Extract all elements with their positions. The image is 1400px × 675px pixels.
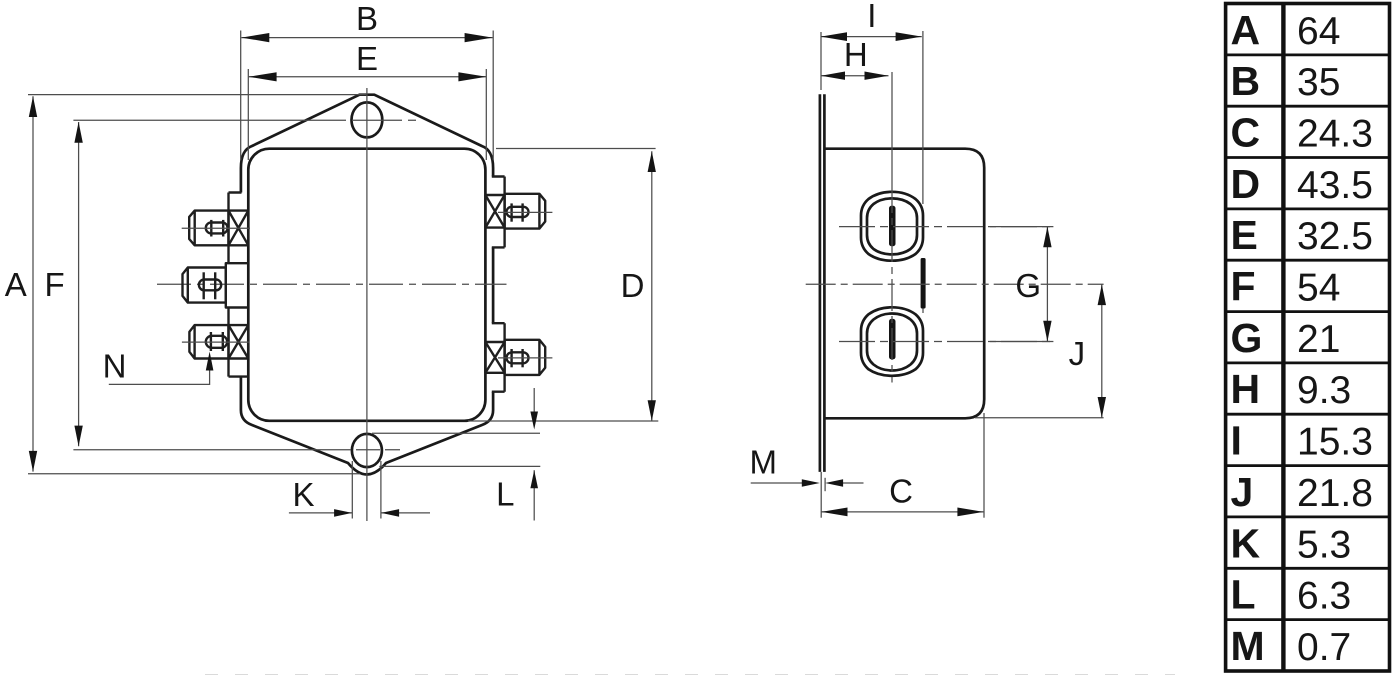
- dimension J: [975, 284, 1106, 417]
- svg-text:G: G: [1231, 315, 1263, 361]
- terminal tab right bottom: [498, 340, 552, 375]
- left insulator box X bottom: [229, 325, 249, 358]
- front view outer outline with mounting ears: [241, 95, 493, 475]
- svg-text:I: I: [1231, 418, 1242, 464]
- dimension L: [372, 388, 540, 521]
- svg-text:B: B: [1231, 58, 1261, 104]
- front vertical centerline: [366, 88, 368, 521]
- top mounting hole: [352, 102, 383, 137]
- svg-text:C: C: [889, 473, 913, 510]
- svg-text:15.3: 15.3: [1297, 421, 1373, 464]
- dimension G: [990, 227, 1053, 342]
- svg-text:32.5: 32.5: [1297, 215, 1373, 258]
- svg-text:24.3: 24.3: [1297, 113, 1373, 156]
- right insulator box X top: [485, 195, 504, 228]
- side top receptacle centerline: [839, 226, 1053, 228]
- svg-text:F: F: [1231, 264, 1256, 310]
- svg-text:6.3: 6.3: [1297, 575, 1351, 618]
- dimension K: [289, 461, 430, 519]
- svg-text:0.7: 0.7: [1297, 626, 1351, 669]
- table values column: [1297, 10, 1373, 669]
- table letters column: [1231, 7, 1265, 669]
- terminal tab left middle with shoulder: [183, 263, 249, 307]
- leader N: [103, 348, 214, 385]
- dimension A: [5, 95, 541, 474]
- svg-text:21: 21: [1297, 318, 1340, 361]
- receptacle top: [861, 192, 923, 261]
- side middle centerline: [806, 283, 1104, 285]
- front horizontal centerline: [157, 283, 507, 285]
- svg-text:K: K: [1231, 520, 1261, 566]
- terminal tab left top: [182, 211, 250, 246]
- svg-text:M: M: [750, 444, 778, 481]
- dimension E: [248, 40, 486, 160]
- side bottom receptacle centerline: [839, 341, 1053, 343]
- svg-text:L: L: [1231, 572, 1256, 618]
- dimension C: [821, 413, 984, 518]
- dimension F: [45, 122, 83, 446]
- svg-text:H: H: [1231, 366, 1261, 412]
- svg-text:5.3: 5.3: [1297, 523, 1351, 566]
- svg-text:H: H: [844, 36, 868, 73]
- side view body: [824, 149, 984, 419]
- svg-text:43.5: 43.5: [1297, 164, 1373, 207]
- dimension table: [1226, 4, 1390, 672]
- bottom mounting hole: [352, 434, 382, 467]
- svg-text:L: L: [496, 476, 514, 513]
- terminal tab right top: [498, 194, 552, 229]
- svg-text:B: B: [356, 0, 378, 37]
- dimension I: [821, 0, 923, 204]
- svg-text:K: K: [292, 476, 314, 513]
- middle ground pin bar: [921, 258, 926, 313]
- svg-text:C: C: [1231, 110, 1261, 156]
- svg-text:E: E: [356, 40, 378, 77]
- front view body inner rounded rectangle: [248, 149, 485, 421]
- svg-text:21.8: 21.8: [1297, 472, 1373, 515]
- svg-text:35: 35: [1297, 61, 1340, 104]
- cropped text row at bottom edge: [205, 674, 1175, 675]
- svg-text:D: D: [621, 267, 645, 304]
- side vertical centerline: [891, 72, 893, 383]
- svg-text:G: G: [1015, 267, 1041, 304]
- right mounting strip: [492, 177, 505, 392]
- svg-text:J: J: [1231, 469, 1254, 515]
- svg-text:I: I: [867, 0, 876, 34]
- right insulator box X bottom: [485, 342, 504, 373]
- svg-text:54: 54: [1297, 267, 1340, 310]
- terminal tab left bottom: [182, 325, 249, 358]
- receptacle bottom: [861, 307, 923, 376]
- svg-text:J: J: [1069, 335, 1086, 372]
- svg-text:E: E: [1231, 212, 1258, 258]
- dimension D: [468, 149, 658, 422]
- dimension M: [750, 444, 864, 492]
- svg-text:A: A: [5, 266, 27, 303]
- side view flange plate: [820, 94, 825, 472]
- svg-text:F: F: [45, 266, 65, 303]
- svg-text:64: 64: [1297, 10, 1340, 53]
- left insulator box X top: [229, 211, 249, 246]
- dimension H: [821, 36, 889, 80]
- svg-text:M: M: [1231, 623, 1265, 669]
- left mounting strip: [229, 193, 248, 377]
- svg-text:N: N: [103, 348, 127, 385]
- top hole centerline: [73, 119, 416, 121]
- svg-text:A: A: [1231, 7, 1261, 53]
- svg-text:9.3: 9.3: [1297, 369, 1351, 412]
- bottom hole centerline: [73, 449, 400, 451]
- svg-text:D: D: [1231, 161, 1261, 207]
- dimension B: [241, 0, 494, 160]
